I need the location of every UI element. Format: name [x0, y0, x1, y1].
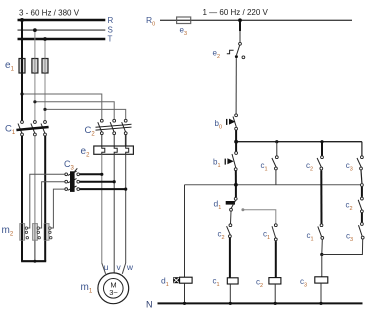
linkage bar C1: [16, 127, 48, 130]
C3 contact arms: [68, 171, 77, 175]
wire through fuse1: [21, 59, 23, 74]
wire b0 to rail1: [235, 130, 237, 141]
rail1 (after b0): [236, 141, 362, 143]
coil c3: [315, 277, 328, 283]
svg-text:S: S: [108, 25, 113, 34]
pushbutton b0 (NC stop): [226, 114, 238, 130]
svg-text:3~: 3~: [109, 288, 118, 297]
contactor C2 pole3: [122, 119, 127, 134]
wire b1 to rail2: [235, 171, 237, 185]
wire motor entry w slant: [122, 263, 125, 274]
node C3 row2: [113, 180, 116, 183]
column c2 (top row): [321, 142, 323, 156]
svg-text:u: u: [104, 262, 109, 272]
fuse e1 pole3: [42, 59, 48, 74]
m2 element2 terminals: [37, 227, 39, 229]
wire motor entry u slant: [102, 263, 106, 274]
shorting bar m2 star: [21, 260, 46, 262]
bus R: [18, 19, 106, 21]
wire coil c2 to N: [274, 284, 276, 303]
contactor C3 star bridge: [65, 168, 80, 192]
wire c2 top down crossing rail2: [320, 170, 322, 223]
column c1 seal (top row): [276, 142, 278, 156]
svg-text:T: T: [108, 34, 113, 43]
node rail1-main: [234, 140, 238, 144]
wire d1 coil to N: [184, 283, 186, 303]
C3 right terminal circles: [77, 173, 80, 176]
node T tap: [43, 37, 47, 41]
pushbutton b1 (NO start): [225, 152, 238, 171]
contact c2 top: [317, 156, 323, 170]
relay coil d1 (box with X): [173, 277, 192, 283]
thermal contact e2: [227, 42, 245, 58]
wire coil c1 to N: [229, 284, 231, 303]
wire phase T vertical lower: [44, 136, 46, 261]
wire C3 row2 left stub: [40, 182, 65, 228]
wire c3 lower elbow to junction: [322, 239, 363, 254]
node R0 branch: [238, 18, 242, 22]
wire motor feed u: [101, 154, 103, 263]
node rail2-main: [234, 183, 238, 187]
wire tap2 to C2 pole2: [35, 102, 114, 119]
overload relay e2 box: [94, 146, 134, 154]
rail2 (after b1): [185, 184, 362, 186]
wire d1 to c2 contact: [230, 211, 233, 223]
wire rail2 to d1 contact: [235, 185, 237, 197]
contact c2 lower (x362): [358, 197, 363, 213]
wire c2 lower to c3 lower: [361, 213, 363, 222]
svg-text:3 - 60 Hz / 380 V: 3 - 60 Hz / 380 V: [19, 9, 80, 18]
rotor m2 element2: [33, 224, 38, 241]
column c3 (top row): [361, 142, 363, 156]
C3 linkage bar: [70, 171, 75, 192]
contactor C2 pole1: [98, 119, 103, 134]
node tap3: [43, 108, 46, 111]
svg-text:N: N: [146, 300, 153, 310]
fuse e1 pole2: [32, 59, 38, 74]
node R tap: [20, 18, 24, 22]
wire C2 pole3 to e2: [125, 135, 127, 146]
motor m1: [98, 273, 129, 304]
wire motor feed w: [125, 154, 127, 263]
node C3 row1: [100, 173, 103, 176]
svg-text:1 — 60 Hz / 220 V: 1 — 60 Hz / 220 V: [203, 8, 269, 17]
fuse e1 pole1: [19, 59, 25, 74]
linkage C2 (double line): [96, 124, 132, 127]
svg-text:w: w: [126, 262, 134, 272]
coil c2: [269, 278, 281, 284]
wire coil c3 to N: [320, 283, 322, 303]
wire rail2 to c2 lower contact: [361, 187, 363, 197]
contact c3 top: [357, 156, 363, 170]
node N c1: [229, 302, 232, 305]
wire R0 down: [239, 20, 241, 31]
contact c3 lower (x362): [359, 223, 365, 239]
bus S: [18, 29, 106, 31]
rail N: [158, 302, 363, 304]
bus T: [18, 38, 106, 40]
wire junction to c3 coil: [321, 255, 323, 277]
terminal circle on rail2: [361, 184, 364, 187]
wire tap1 to C2 pole1: [22, 94, 102, 119]
wire motor feed v: [113, 154, 115, 273]
wire phase R vertical upper: [21, 20, 23, 121]
rotor m2 element3: [44, 224, 49, 241]
node N d1: [183, 302, 186, 305]
timer changeover contact d1: [226, 197, 245, 211]
heater element pole1: [102, 146, 105, 154]
wire e2 to b0: [235, 58, 237, 114]
node C3 row3: [124, 188, 127, 191]
heater element pole3: [126, 146, 129, 154]
node junction c3: [320, 253, 323, 256]
wire C3 row1 right: [80, 173, 102, 175]
wire rail1 to b1: [235, 142, 237, 152]
wire c1 top to rail2: [275, 170, 277, 185]
rail R0: [160, 19, 352, 21]
wire c2 to coil c1: [229, 238, 231, 278]
contactor C2 pole2: [110, 119, 115, 134]
m2 element1 terminals: [25, 227, 27, 229]
wire d1 NO branch (gray): [243, 210, 276, 224]
wire phase S vertical upper: [34, 30, 36, 120]
contact c1 lower (x322): [318, 224, 324, 240]
wire c1 contact to coil c2: [275, 241, 277, 278]
node N c2: [274, 302, 277, 305]
node tap2: [33, 100, 36, 103]
node N c3: [319, 302, 322, 305]
coil c1: [227, 278, 238, 284]
contact c1 NO (seal branch): [272, 224, 277, 241]
wire c3 top to rail2: [360, 170, 363, 183]
m2 element3 terminals: [49, 227, 51, 229]
svg-text:R: R: [108, 16, 114, 25]
wire rail2 left drop to d1 coil: [184, 185, 186, 277]
wire C3 row2 right: [80, 181, 114, 183]
contactor C1 pole1: [18, 121, 23, 136]
wire phase S vertical lower: [34, 136, 36, 224]
node rail1-c1: [275, 140, 278, 143]
wire C3 row1 left stub: [28, 174, 65, 228]
contactor C1 pole2: [31, 121, 36, 136]
node S tap: [33, 28, 37, 32]
wire tap3 to C2 pole3: [45, 109, 126, 119]
heater element pole2: [114, 146, 117, 154]
wires through m2 elements: [21, 224, 23, 241]
wire phase R vertical lower: [21, 136, 23, 261]
node rail1-c2: [320, 140, 323, 143]
rotor m2 element1: [20, 224, 25, 241]
contactor C1 pole3: [41, 121, 46, 136]
wire C3 row3 left stub: [51, 189, 64, 228]
fuse e3: [177, 17, 191, 24]
contact c1 top: [272, 156, 278, 170]
C3 left terminal circles: [65, 173, 68, 176]
wire c1 lower to junction: [321, 240, 324, 255]
node tap1: [20, 92, 23, 95]
wire C3 row3 right: [80, 188, 126, 190]
wire C2 pole1 to e2: [101, 135, 103, 146]
wire C2 pole2 to e2: [113, 135, 115, 146]
contact c2 NC (main column): [227, 224, 232, 238]
wire phase T vertical upper: [44, 39, 46, 121]
